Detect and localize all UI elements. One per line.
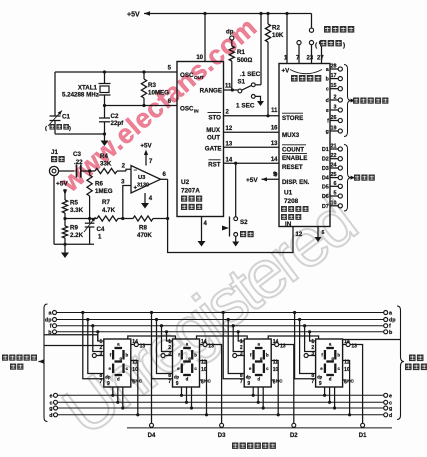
resistor R6 1MEG — [87, 171, 113, 219]
node DS1 pin 13 circle — [131, 343, 139, 347]
wire rail to S1 .1SEC contact — [259, 12, 262, 85]
svg-text:11: 11 — [271, 108, 278, 114]
svg-text:e: e — [389, 393, 392, 399]
wire DS4 to bus e — [323, 387, 326, 397]
wire DS1 NC — [131, 379, 143, 385]
wire DS1 to bus a — [81, 311, 104, 379]
label DS1 pins right — [107, 339, 145, 387]
svg-text:U1: U1 — [284, 190, 293, 197]
label U2 pin numbers right — [226, 110, 233, 164]
svg-text:21: 21 — [331, 144, 337, 150]
wire DS1 pin 1 to bracket — [44, 335, 98, 341]
wire DS2 to bus dp — [155, 318, 173, 374]
svg-text:): ) — [69, 126, 71, 132]
display module DS1 box — [104, 339, 131, 387]
svg-text:R2: R2 — [272, 25, 280, 32]
wire J1 shield down — [53, 176, 55, 245]
label U1 pin numbers left — [271, 108, 278, 179]
svg-text:9: 9 — [247, 381, 250, 387]
label DS2 pins left — [168, 339, 179, 385]
svg-text:c: c — [326, 87, 329, 93]
svg-text:23: 23 — [307, 56, 314, 62]
svg-text:OUT: OUT — [194, 75, 204, 80]
label 临时跳线 — [324, 26, 354, 33]
svg-text:f: f — [389, 324, 391, 330]
wire DS2 pin 14 chain — [197, 336, 248, 339]
wire DS2 to bus f — [160, 324, 173, 351]
power +5V top rail — [127, 11, 312, 18]
svg-text:14: 14 — [271, 157, 278, 163]
svg-text:24: 24 — [331, 163, 337, 169]
U1 pin 7 test point — [297, 41, 301, 64]
svg-text:C3: C3 — [73, 151, 81, 158]
wire DS3 digit select — [279, 345, 294, 424]
svg-text:f: f — [327, 119, 329, 125]
svg-text:+5V: +5V — [246, 177, 258, 184]
svg-text:D4: D4 — [322, 176, 329, 182]
wire MUX line — [224, 131, 280, 133]
svg-text:D1: D1 — [359, 433, 367, 439]
switch S1 1SEC contact — [236, 95, 255, 110]
svg-text:1MEG: 1MEG — [95, 188, 113, 195]
resistor R3 10MEG — [141, 72, 169, 106]
svg-text:RANGE: RANGE — [200, 88, 222, 95]
wire osc top rail to pin 5 — [55, 66, 177, 74]
wire DS2 digit select — [207, 345, 222, 424]
wire bias line — [65, 218, 97, 220]
node D2 terminal — [290, 423, 298, 439]
svg-text:b: b — [126, 353, 129, 358]
svg-text:D4: D4 — [148, 433, 156, 439]
bracket right segment driver — [397, 306, 404, 420]
resistor R8 470K — [133, 216, 168, 239]
svg-text:11: 11 — [225, 84, 232, 90]
capacitor C2 22pF — [99, 106, 124, 141]
wire U1 digit outputs D1-D7 — [322, 144, 343, 210]
wire DS1 to bus e — [111, 387, 114, 397]
svg-text:+V: +V — [282, 68, 291, 75]
svg-text:R3: R3 — [148, 82, 156, 89]
resistor R2 10K pull-up — [265, 12, 283, 118]
svg-text:g: g — [326, 129, 329, 135]
svg-text:g: g — [188, 356, 191, 361]
svg-text:7: 7 — [100, 379, 103, 385]
label （见正文） — [315, 40, 345, 49]
seven-segment digit DS1 — [108, 342, 128, 382]
svg-text:): ) — [343, 42, 345, 49]
svg-text:D2: D2 — [322, 157, 329, 163]
connector J1 input — [49, 149, 74, 176]
wire DS3 to bus dp — [227, 318, 245, 374]
svg-text:D3: D3 — [218, 433, 226, 439]
wire DS2 NC — [200, 379, 212, 385]
wire DS2 to bus c — [185, 387, 188, 404]
svg-text:b: b — [326, 77, 329, 83]
seven-segment digit DS3 — [249, 342, 269, 382]
svg-text:7208: 7208 — [284, 198, 299, 205]
label pin 2 — [122, 164, 126, 170]
wire DS3 NC — [271, 379, 283, 385]
svg-text:22: 22 — [331, 153, 337, 159]
node DS2 left pin circle — [161, 354, 173, 358]
svg-text:1 SEC: 1 SEC — [236, 103, 255, 110]
svg-text:e: e — [50, 393, 53, 399]
svg-text:NC: NC — [276, 379, 283, 385]
wire DS3 to bus c — [257, 387, 260, 404]
label 共阴极 — [354, 175, 375, 181]
ground U2 pin 4 — [198, 217, 208, 247]
wire DS2 to bus g — [190, 387, 193, 410]
svg-text:2.2K: 2.2K — [70, 232, 84, 239]
svg-text:−: − — [134, 168, 138, 174]
svg-text:26: 26 — [331, 115, 337, 121]
svg-text:22pf: 22pf — [111, 120, 125, 127]
brace common cathode — [344, 145, 355, 212]
svg-text:3130: 3130 — [137, 183, 149, 189]
svg-text:(: ( — [45, 126, 47, 132]
svg-text:7: 7 — [311, 379, 314, 385]
svg-text:b: b — [337, 353, 340, 358]
svg-text:5.24288 MHz: 5.24288 MHz — [62, 92, 99, 99]
resistor R4 33K — [95, 153, 131, 174]
node DS4 pin 13 circle — [343, 343, 351, 347]
wire DS2 to bus b — [165, 330, 173, 341]
wire DS1 pin 11 to bus d — [131, 361, 140, 417]
wire DS1 to bus g — [121, 387, 124, 410]
display module DS3 box — [244, 339, 271, 387]
svg-text:IN: IN — [194, 109, 199, 114]
wire DS4 to bus c — [328, 387, 331, 404]
svg-text:10: 10 — [331, 200, 337, 206]
svg-text:NC: NC — [204, 379, 211, 385]
svg-text:OUT: OUT — [207, 135, 220, 142]
svg-text:.22: .22 — [74, 159, 83, 166]
svg-text:4.7K: 4.7K — [102, 207, 116, 214]
svg-text:470K: 470K — [137, 232, 152, 239]
label 接附加显示模块 — [2, 355, 37, 370]
svg-text:R6: R6 — [95, 181, 103, 188]
svg-text:19: 19 — [331, 126, 337, 132]
svg-text:dp: dp — [226, 29, 234, 36]
bracket left display module — [39, 304, 48, 422]
wire DS4 to bus g — [333, 387, 336, 410]
resistor R7 4.7K — [97, 199, 133, 221]
power +5V op-amp pin 7 — [140, 143, 153, 166]
IC U1 7208 counter — [279, 64, 330, 229]
U1 pin 27 test point — [319, 41, 323, 64]
svg-text:S2: S2 — [240, 219, 248, 226]
power +5V DISP EN — [246, 172, 279, 184]
wire DS4 pin 11 to bus d — [343, 361, 352, 417]
wire DS2 to bus e — [180, 387, 183, 397]
wire DS3 to bus e — [252, 387, 255, 397]
svg-text:D7: D7 — [322, 204, 329, 210]
svg-text:RESET: RESET — [282, 164, 303, 171]
svg-text:b: b — [194, 353, 197, 358]
wire DS4 to bus dp — [298, 318, 316, 374]
svg-text:7207A: 7207A — [181, 188, 200, 195]
svg-text:D2: D2 — [290, 433, 298, 439]
svg-text:R1: R1 — [237, 49, 245, 56]
node DS4 left pin circle — [304, 354, 316, 358]
svg-text:+5V: +5V — [140, 143, 152, 150]
svg-text:XTAL1: XTAL1 — [78, 85, 98, 92]
label DS4 pins left — [311, 339, 322, 385]
wire osc bottom rail to pin 6 — [103, 99, 177, 107]
display module DS2 box — [173, 339, 200, 387]
svg-text:STORE: STORE — [282, 115, 303, 122]
node D4 terminal — [148, 423, 156, 439]
svg-text:DISP. EN.: DISP. EN. — [282, 179, 310, 186]
svg-text:D1: D1 — [322, 147, 329, 153]
svg-text:10MEG: 10MEG — [148, 90, 169, 97]
wire DS4 digit select — [350, 345, 363, 424]
ground 1SEC contact — [255, 96, 264, 106]
svg-text:12: 12 — [296, 232, 303, 238]
svg-text:OSC: OSC — [180, 106, 194, 113]
svg-text:dp: dp — [105, 374, 111, 379]
wire DS1 digit select — [138, 345, 151, 424]
IC U2 7207A oscillator controller — [177, 62, 224, 217]
svg-text:C1: C1 — [62, 114, 70, 121]
svg-text:OSC: OSC — [180, 72, 194, 79]
node DS1 left pin circle — [92, 354, 104, 358]
svg-text:27: 27 — [317, 56, 324, 62]
wire DS4 NC — [343, 379, 355, 385]
svg-text:25: 25 — [331, 172, 337, 178]
svg-text:6: 6 — [322, 230, 325, 236]
node DS3 pin 13 circle — [271, 343, 279, 347]
svg-text:R5: R5 — [70, 200, 78, 207]
switch S1 range select — [238, 79, 256, 93]
node input junction — [88, 169, 95, 172]
watermark gray Unregistered — [49, 184, 367, 450]
wire DS3 to bus g — [262, 387, 265, 410]
ground oscillator — [101, 141, 109, 147]
svg-text:1: 1 — [98, 234, 102, 241]
svg-text:g: g — [120, 356, 123, 361]
svg-text:a: a — [326, 67, 329, 73]
wire DS3 to bus b — [237, 330, 245, 341]
wire C1 bottom to C2 bottom — [55, 132, 106, 135]
svg-text:R4: R4 — [100, 153, 108, 160]
label DS3 pins left — [240, 339, 251, 385]
node dp test point — [226, 29, 234, 41]
svg-text:g: g — [49, 406, 52, 412]
wire ground rail — [54, 243, 94, 246]
ground U1 bottom — [315, 227, 325, 243]
node R6 C4 junction — [88, 217, 91, 220]
display module DS4 box — [316, 339, 343, 387]
svg-text:S1: S1 — [238, 79, 246, 86]
svg-text:3.3K: 3.3K — [70, 207, 84, 214]
node D3 terminal — [218, 423, 226, 439]
svg-text:.1 SEC: .1 SEC — [240, 71, 261, 78]
svg-text:dp: dp — [45, 318, 52, 324]
svg-text:5: 5 — [334, 191, 337, 197]
svg-text:+5V: +5V — [127, 12, 140, 19]
svg-text:R8: R8 — [139, 225, 147, 232]
ground S2 — [232, 236, 239, 246]
svg-text:NC: NC — [347, 379, 354, 385]
svg-text:+5V: +5V — [56, 181, 68, 188]
svg-text:D3: D3 — [322, 166, 329, 172]
wire rail to U1 pin 1 — [285, 12, 288, 64]
wire DS4 to bus b — [308, 330, 316, 341]
svg-text:dp: dp — [174, 374, 180, 379]
ground op-amp pin 4 — [141, 193, 153, 209]
wire .1SEC to +5V — [255, 84, 261, 86]
label DS1 pins left — [100, 339, 111, 385]
wire DS4 to bus f — [303, 324, 316, 351]
svg-text:g: g — [389, 406, 392, 412]
seven-segment digit DS2 — [177, 342, 197, 382]
svg-text:dp: dp — [317, 374, 323, 379]
wire segment bus top a dp f b — [45, 311, 396, 336]
svg-text:d: d — [117, 377, 120, 382]
wire RST ENABLE line — [224, 162, 280, 165]
svg-text:e: e — [326, 108, 329, 114]
svg-text:6: 6 — [334, 181, 337, 187]
svg-text:d: d — [49, 413, 52, 419]
power +5V divider feed — [56, 181, 68, 201]
resistor R1 500ohm — [229, 40, 252, 90]
svg-text:13: 13 — [271, 141, 278, 147]
wire digit driver line — [127, 427, 392, 429]
wire DS3 to bus f — [232, 324, 245, 351]
svg-text:COUNT: COUNT — [282, 147, 304, 154]
temporary jumper on pin 23 — [309, 14, 313, 64]
svg-text:9: 9 — [176, 381, 179, 387]
label 多路复用段 — [353, 98, 388, 104]
label DS4 pins right — [319, 339, 357, 387]
wire DS1 to bus c — [116, 387, 119, 404]
svg-text:7: 7 — [240, 379, 243, 385]
label U1 pin numbers top — [284, 56, 324, 62]
node op-amp plus input junction — [121, 180, 131, 221]
wire DS1 pin 2 to bracket — [44, 345, 104, 347]
seven-segment digit DS4 — [320, 342, 340, 382]
wire DS3 to bus a — [222, 311, 245, 379]
svg-text:g: g — [331, 356, 334, 361]
svg-text:f: f — [50, 324, 52, 330]
resistor R5 3.3K — [62, 200, 83, 227]
node D1 terminal — [359, 423, 367, 439]
svg-text:17: 17 — [331, 73, 337, 79]
wire U1 segment outputs a-g — [326, 64, 343, 136]
svg-text:R7: R7 — [102, 199, 110, 206]
svg-text:28: 28 — [331, 64, 337, 70]
svg-text:d: d — [329, 377, 332, 382]
svg-text:D5: D5 — [322, 184, 329, 190]
svg-text:dp: dp — [246, 374, 252, 379]
node DS3 left pin circle — [233, 354, 245, 358]
wire segment bus bottom e c g d — [49, 393, 392, 419]
wire rail to U2 pin 10 — [196, 12, 206, 62]
svg-text:3: 3 — [334, 105, 337, 111]
svg-text:C4: C4 — [97, 226, 105, 233]
label 接段驱动器 — [405, 355, 427, 371]
wire DS1 to bus b — [96, 330, 104, 341]
resistor R9 2.2K — [62, 225, 83, 245]
svg-text:2: 2 — [334, 95, 337, 101]
svg-text:NC: NC — [135, 379, 142, 385]
node divider junction — [63, 217, 66, 220]
capacitor C3 .22 — [73, 151, 90, 178]
svg-text:33K: 33K — [100, 161, 112, 168]
svg-text:d: d — [186, 377, 189, 382]
capacitor C4 trimmer — [84, 217, 105, 244]
svg-text:9: 9 — [107, 381, 110, 387]
ground input stage — [61, 244, 69, 258]
svg-text:U2: U2 — [181, 179, 190, 186]
svg-text:dp: dp — [389, 318, 396, 324]
svg-text:R9: R9 — [70, 225, 78, 232]
wire DS3 pin 11 to bus d — [271, 361, 280, 417]
svg-text:10: 10 — [196, 55, 203, 61]
label DS3 pins right — [247, 339, 285, 387]
crystal XTAL1 5.24288 MHz — [62, 72, 111, 106]
svg-text:U3: U3 — [138, 175, 146, 181]
svg-text:ENABLE: ENABLE — [282, 155, 307, 162]
svg-text:10K: 10K — [272, 32, 284, 39]
wire RANGE pin 11 — [224, 84, 239, 92]
wire output to IN line — [168, 219, 303, 253]
svg-text:9: 9 — [319, 381, 322, 387]
svg-text:16: 16 — [271, 126, 278, 132]
wire STORE line — [224, 115, 280, 117]
wire DS4 to bus a — [293, 311, 316, 379]
svg-text:MUX: MUX — [206, 127, 221, 134]
svg-text:d: d — [326, 98, 329, 104]
watermark pink www.elecfans.com — [54, 12, 262, 198]
svg-text:b: b — [266, 353, 269, 358]
svg-text:MUX3: MUX3 — [282, 132, 300, 139]
wire DS4 pin 14 to bracket — [343, 339, 401, 341]
label DS2 pins right — [176, 339, 214, 387]
label 接数字驱动器 — [232, 443, 276, 449]
brace multiplexed segments — [344, 65, 355, 137]
wire DS2 pin 11 to bus d — [200, 361, 209, 417]
wire DS1 to bus f — [91, 324, 104, 351]
wire DS2 to bus a — [150, 311, 173, 379]
svg-text:d: d — [389, 413, 392, 419]
wire op-amp output — [161, 172, 170, 220]
svg-text:J1: J1 — [51, 149, 58, 156]
svg-text:12: 12 — [226, 126, 233, 132]
label .1 SEC — [240, 71, 261, 78]
wire DS1 to bus dp — [86, 318, 104, 374]
svg-text:g: g — [260, 356, 263, 361]
wire GATE COUNT line — [224, 146, 280, 148]
svg-text:500Ω: 500Ω — [237, 57, 252, 64]
node DS2 pin 13 circle — [200, 343, 208, 347]
svg-text:GATE: GATE — [205, 146, 222, 153]
wire DS3 pin 14 chain — [268, 336, 318, 339]
wire DS1 pin 14 chain — [128, 336, 176, 339]
switch S2 reset — [222, 163, 254, 237]
svg-text:RST: RST — [208, 162, 221, 169]
svg-text:d: d — [257, 377, 260, 382]
svg-text:IN: IN — [285, 221, 292, 228]
svg-text:7: 7 — [168, 379, 171, 385]
svg-text:15: 15 — [331, 83, 337, 89]
capacitor C1 variable (see text) — [45, 72, 71, 134]
svg-text:STO: STO — [208, 115, 221, 122]
op-amp U3 3130 — [131, 166, 161, 194]
svg-text:D6: D6 — [322, 194, 329, 200]
